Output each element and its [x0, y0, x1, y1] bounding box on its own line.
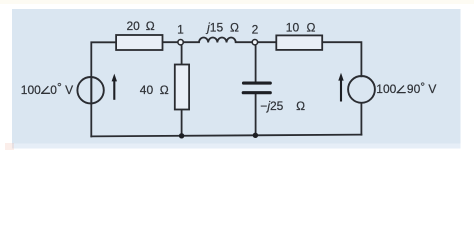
resistor R2 40ohm — [175, 65, 189, 110]
inductor L1 j15ohm — [199, 38, 236, 43]
source V2 circle — [348, 76, 375, 103]
wire capacitor to bottom rail — [255, 95, 257, 136]
svg-text:100: 100 — [21, 83, 41, 97]
wire node 2 to R3 — [258, 41, 277, 43]
wire node 1 to inductor — [183, 41, 199, 43]
wire R3 to right corner and down through source V2 — [322, 42, 361, 76]
node 1 — [178, 40, 183, 45]
wire left source to bottom rail — [90, 78, 92, 137]
capacitor C1 -j25ohm — [243, 83, 270, 93]
junction dot at node below C1 — [253, 133, 258, 138]
svg-text:−j25Ω: −j25Ω — [260, 99, 305, 113]
resistor R3 10ohm — [276, 35, 322, 50]
bottom rail wire — [91, 135, 361, 137]
wire source V2 bottom to rail — [360, 103, 362, 135]
svg-text:j15Ω: j15Ω — [205, 20, 239, 34]
wire top-left (source V1 up to top rail, right to R1) — [91, 42, 116, 103]
junction dot at node below R2 — [179, 133, 184, 138]
wire node 1 down to R2 — [181, 45, 183, 65]
svg-text:0° V: 0° V — [50, 80, 73, 97]
node 2 — [252, 40, 257, 45]
wire node 2 down to capacitor — [255, 45, 257, 82]
source V1 arrow — [112, 74, 117, 100]
svg-text:1: 1 — [177, 23, 184, 37]
svg-text:100: 100 — [376, 82, 396, 96]
source V1 circle — [77, 77, 103, 103]
svg-text:2: 2 — [252, 23, 259, 37]
wire inductor to node 2 — [236, 41, 253, 43]
source V2 arrow — [338, 73, 343, 102]
resistor R1 20ohm — [116, 35, 162, 50]
wire R1 right lead to node 1 — [163, 41, 179, 43]
wire R2 to bottom rail — [181, 110, 183, 136]
